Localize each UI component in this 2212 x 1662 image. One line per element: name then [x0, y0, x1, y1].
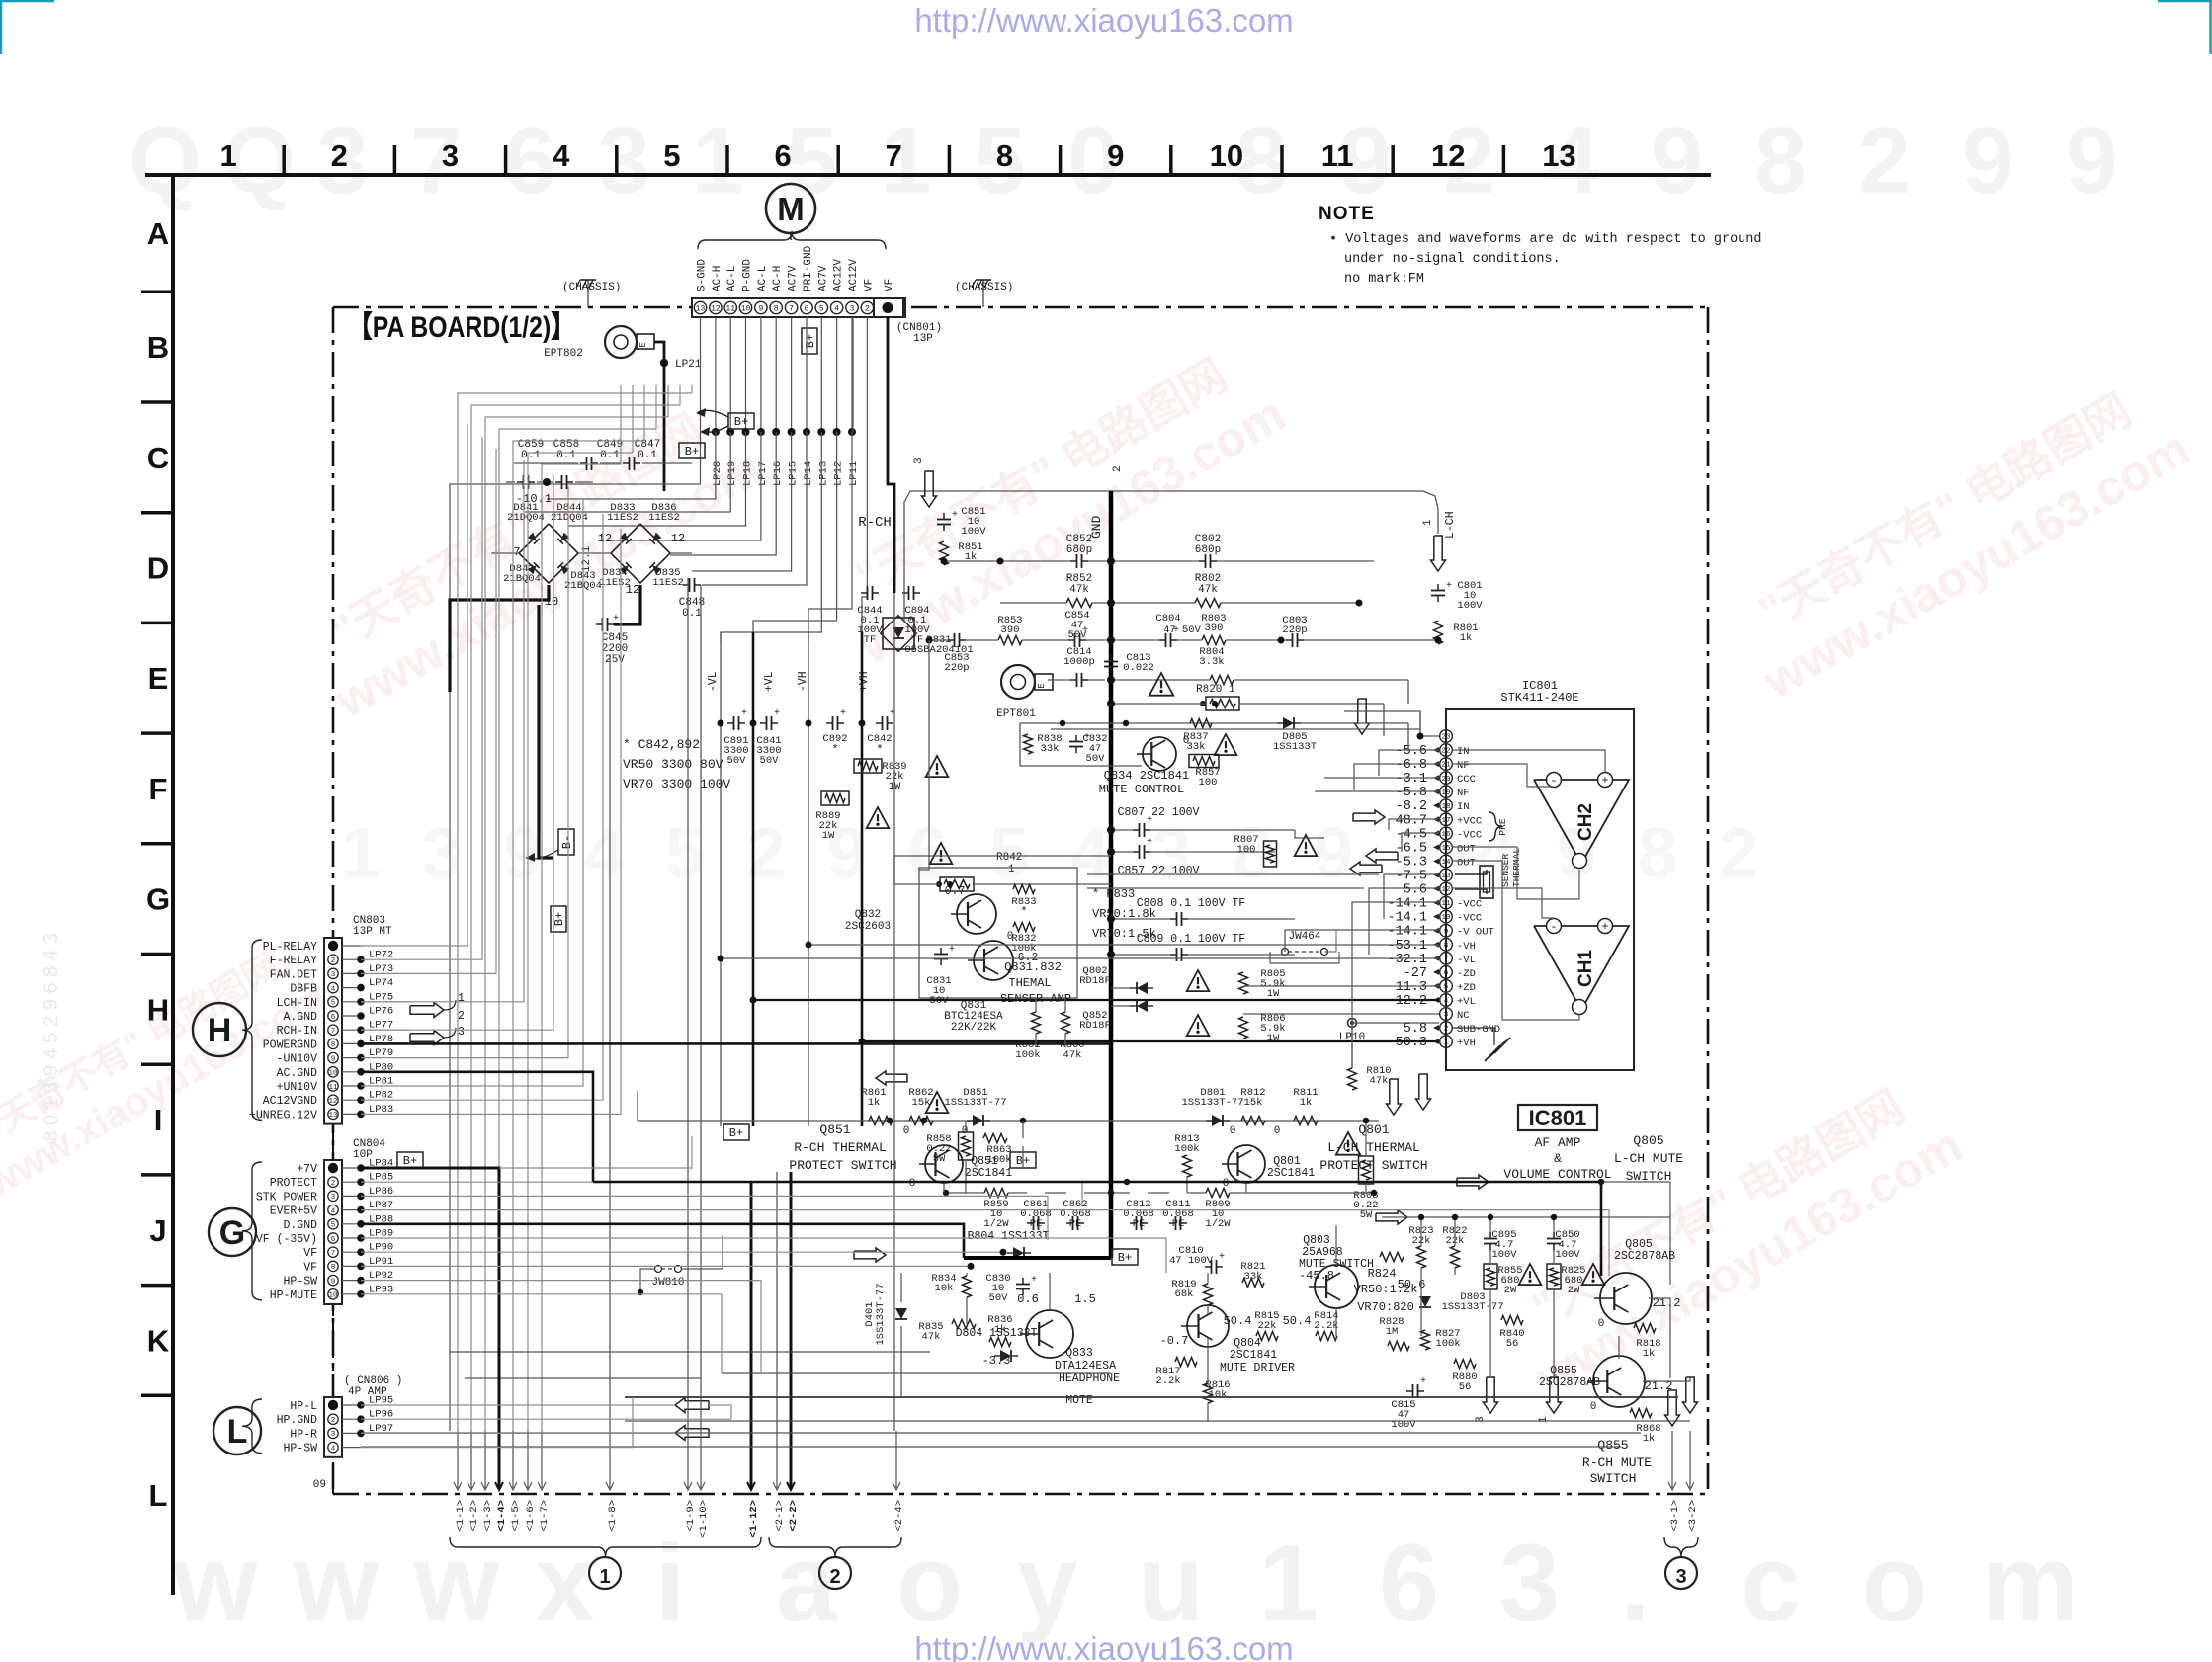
svg-text:-VL: -VL — [1457, 955, 1476, 966]
capacitor C851 10 100V — [943, 513, 945, 520]
pin 2 HP.GND of CN806 — [328, 1414, 338, 1424]
pin 14 of IC801 — [1440, 855, 1453, 868]
svg-text:VR70 3300 100V: VR70 3300 100V — [623, 777, 730, 791]
svg-text:u: u — [1138, 1523, 1204, 1644]
svg-text:R-CH THERMAL: R-CH THERMAL — [794, 1140, 887, 1155]
svg-text:C809 0.1 100V TF: C809 0.1 100V TF — [1137, 933, 1246, 946]
connector CN804 body — [324, 1160, 342, 1304]
svg-text:+VH: +VH — [1457, 1038, 1476, 1049]
svg-text:22K/22K: 22K/22K — [951, 1022, 997, 1034]
pin 3 STK POWER of CN804 — [328, 1191, 338, 1201]
svg-text:1: 1 — [599, 1566, 610, 1588]
svg-text:47 50V: 47 50V — [1163, 624, 1202, 636]
pin 8 POWERGND of CN803 — [328, 1039, 338, 1048]
svg-text:EVER+5V: EVER+5V — [270, 1205, 317, 1218]
svg-text:7: 7 — [1444, 956, 1449, 963]
svg-text:3: 3 — [422, 814, 462, 893]
svg-text:11.3: 11.3 — [1396, 980, 1427, 995]
svg-text:100V: 100V — [1457, 600, 1483, 612]
svg-text:12.2: 12.2 — [1396, 994, 1427, 1009]
wire D.GND bold — [361, 1224, 964, 1258]
transistor Q831 — [974, 941, 1013, 980]
svg-text:<1-1>: <1-1> — [455, 1500, 467, 1532]
resistor R889 22k 1W boxed — [821, 791, 849, 805]
svg-text:m: m — [1982, 1523, 2079, 1644]
svg-text:w: w — [172, 1523, 258, 1644]
svg-text:EPT801: EPT801 — [996, 708, 1036, 720]
pin 4 HP-SW of CN806 — [328, 1442, 338, 1452]
svg-text:Q: Q — [128, 109, 202, 213]
svg-text:DTA124ESA: DTA124ESA — [1055, 1360, 1116, 1372]
circled letter H — [193, 1003, 246, 1056]
svg-text:2SC2878AB: 2SC2878AB — [1614, 1250, 1675, 1263]
bottom pin 2-1 — [776, 1431, 778, 1488]
svg-text:47k: 47k — [1198, 584, 1218, 596]
svg-text:100k: 100k — [1435, 1338, 1460, 1350]
svg-text:5: 5 — [663, 138, 680, 173]
svg-text:-27: -27 — [1404, 966, 1427, 981]
arrow into IC801 pin18 — [1353, 810, 1385, 824]
svg-text:1k: 1k — [1643, 1348, 1656, 1360]
transistor Q804 mute driver — [1187, 1305, 1229, 1347]
svg-text:no mark:FM: no mark:FM — [1344, 272, 1424, 287]
svg-text:+: + — [1601, 920, 1608, 934]
svg-text:B: B — [147, 330, 169, 365]
svg-text:LP16: LP16 — [772, 461, 784, 486]
transistor Q851 — [925, 1145, 963, 1183]
svg-text:B+: B+ — [403, 1154, 417, 1168]
wire right bottom horizontals — [1382, 1216, 1670, 1218]
wire LP10 to pin3 — [1352, 1022, 1439, 1024]
svg-text:3: 3 — [458, 1026, 465, 1039]
svg-text:AC7V: AC7V — [788, 265, 800, 291]
arrow right into R823 node — [1376, 1210, 1407, 1224]
wire CN806 to board edge — [332, 1462, 334, 1494]
svg-text:SWITCH: SWITCH — [1590, 1471, 1637, 1486]
svg-text:12: 12 — [626, 583, 639, 597]
svg-text:G: G — [219, 1214, 245, 1252]
svg-text:H: H — [147, 992, 169, 1027]
svg-text:50.4: 50.4 — [1283, 1314, 1312, 1328]
resistor R839 22k 1W boxed — [854, 759, 882, 773]
label IC801 AF AMP VOLUME CONTROL — [1518, 1105, 1597, 1130]
svg-text:<2-2>: <2-2> — [788, 1500, 800, 1532]
transistor Q805 L-CH mute switch — [1600, 1273, 1652, 1324]
svg-text:8: 8 — [1638, 814, 1677, 893]
svg-text:+: + — [1147, 837, 1152, 848]
svg-text:6: 6 — [331, 1014, 336, 1022]
svg-text:10: 10 — [545, 595, 558, 609]
svg-text:0.022: 0.022 — [1123, 662, 1154, 674]
warning triangle R842 — [930, 843, 953, 864]
bottom pin 3-2 — [1689, 1431, 1691, 1488]
svg-text:<1-5>: <1-5> — [510, 1500, 522, 1532]
svg-text:0.1: 0.1 — [556, 450, 576, 461]
svg-text:<3-1>: <3-1> — [1669, 1500, 1681, 1532]
svg-text:JW464: JW464 — [1288, 931, 1320, 943]
wire right bottom verticals — [1420, 1217, 1422, 1246]
svg-text:11: 11 — [1441, 900, 1451, 908]
svg-text:HP-R: HP-R — [290, 1428, 317, 1441]
capacitor C801 10 100V — [1437, 584, 1439, 591]
svg-text:w: w — [293, 1523, 379, 1644]
warning triangle Q802 — [1187, 970, 1210, 991]
pin 2 F-RELAY of CN803 — [328, 955, 338, 964]
svg-text:<1-4>: <1-4> — [496, 1500, 508, 1532]
svg-text:Q833: Q833 — [1065, 1347, 1093, 1360]
svg-text:0: 0 — [903, 1125, 910, 1137]
svg-text:6: 6 — [1444, 970, 1449, 978]
svg-text:http://www.xiaoyu163.com: http://www.xiaoyu163.com — [914, 1630, 1293, 1662]
svg-text:18: 18 — [1441, 803, 1450, 811]
pin 22 of IC801 — [1440, 744, 1453, 757]
svg-text:2: 2 — [331, 1417, 336, 1425]
pin 20 of IC801 — [1440, 772, 1453, 785]
resistor R808 0.22 5W boxed vertical — [1359, 1156, 1374, 1184]
pin 11 of IC801 — [1440, 896, 1453, 909]
svg-text:1: 1 — [1008, 864, 1015, 875]
board outline dashed top edge — [333, 306, 1708, 309]
svg-text:10: 10 — [328, 1292, 338, 1300]
brace for connector CN803 — [242, 940, 262, 1120]
svg-text:MOTE: MOTE — [1065, 1394, 1093, 1407]
warning triangle Q852 — [1187, 1015, 1210, 1036]
svg-text:MUTE CONTROL: MUTE CONTROL — [1099, 783, 1184, 796]
arrow out of IC801 pin15 — [1366, 849, 1398, 863]
svg-text:7: 7 — [886, 138, 902, 173]
svg-text:10: 10 — [1441, 914, 1451, 922]
svg-text:o: o — [1861, 1523, 1927, 1644]
wire bold vertical to 1-12 stub — [750, 1182, 753, 1431]
pin 7 RCH-IN of CN803 — [328, 1025, 338, 1035]
svg-text:STK POWER: STK POWER — [256, 1191, 317, 1204]
svg-text:-53.1: -53.1 — [1387, 939, 1427, 954]
pin 18 of IC801 — [1440, 799, 1453, 812]
capacitor C894 0.1 100V TF — [902, 592, 909, 594]
svg-text:-4.5: -4.5 — [1396, 827, 1427, 842]
svg-text:2W: 2W — [1568, 1285, 1580, 1296]
wires IC801 upper pins to left — [1344, 711, 1439, 736]
svg-text:H: H — [208, 1012, 232, 1049]
svg-text:-ZD: -ZD — [1457, 968, 1476, 980]
svg-text:4: 4 — [1070, 814, 1110, 893]
wire thick left bus to B- node — [539, 605, 553, 858]
svg-text:12: 12 — [711, 305, 721, 314]
svg-text:RD18F: RD18F — [1079, 975, 1111, 987]
svg-text:LP76: LP76 — [369, 1006, 393, 1018]
svg-text:2SC1841: 2SC1841 — [1267, 1167, 1315, 1180]
svg-text:E: E — [638, 342, 648, 347]
svg-text:6: 6 — [1379, 1523, 1439, 1644]
pin 1 PL-RELAY of CN803 — [328, 941, 338, 951]
svg-text:+: + — [1031, 1275, 1037, 1286]
wire CN803 to CN804 edge line — [332, 954, 334, 1294]
warning triangle near R858 — [926, 1092, 949, 1113]
svg-text:1k: 1k — [1643, 1433, 1656, 1445]
svg-text:50.4: 50.4 — [1224, 1314, 1252, 1328]
svg-text:1.5: 1.5 — [1074, 1292, 1096, 1306]
resistor R805 5.9k 1W — [1239, 972, 1248, 994]
wire right edge bus down — [1669, 1182, 1671, 1285]
pin 5 of IC801 — [1440, 980, 1453, 993]
svg-text:-UN10V: -UN10V — [277, 1053, 318, 1066]
wire capacitor rows — [506, 481, 515, 483]
svg-text:AC12V: AC12V — [848, 259, 860, 291]
arrow right into Q805 mute area — [1457, 1175, 1489, 1189]
svg-text:14: 14 — [1441, 859, 1451, 867]
svg-text:+VCC: +VCC — [1457, 815, 1482, 827]
svg-text:4: 4 — [331, 1207, 336, 1215]
svg-text:*: * — [876, 743, 883, 757]
svg-text:RD18F: RD18F — [1079, 1020, 1111, 1032]
svg-text:7: 7 — [331, 1250, 336, 1258]
svg-text:1: 1 — [692, 109, 744, 213]
terminal EPT802 — [605, 326, 637, 358]
svg-text:A: A — [147, 216, 169, 251]
svg-text:IC801: IC801 — [1529, 1106, 1587, 1130]
svg-text:-: - — [1550, 774, 1557, 788]
wire thick bridge output down — [614, 585, 640, 624]
svg-text:AC-H: AC-H — [712, 266, 723, 291]
bottom pin 1-6 — [527, 1431, 529, 1488]
svg-text:-6.5: -6.5 — [1396, 841, 1427, 856]
diode D831 05SBA204101 — [883, 618, 914, 649]
arrow down output 1 — [1547, 1377, 1562, 1413]
wire EPT802 to LP21 — [654, 342, 664, 491]
svg-text:B+: B+ — [804, 334, 817, 348]
wire bridge interconnects — [491, 552, 519, 554]
bottom pin 1-9 — [687, 1431, 689, 1488]
resistor R827 100k — [1421, 1330, 1430, 1350]
svg-text:-14.1: -14.1 — [1387, 911, 1427, 926]
svg-text:LP13: LP13 — [817, 461, 829, 486]
svg-text:9: 9 — [1651, 109, 1703, 213]
pin 21 of IC801 — [1440, 758, 1453, 771]
svg-text:-14.1: -14.1 — [1387, 897, 1427, 912]
svg-text:1/2W: 1/2W — [1205, 1218, 1231, 1230]
svg-text:13: 13 — [328, 1112, 338, 1120]
svg-text:-VL: -VL — [707, 671, 720, 692]
svg-text:R-CH: R-CH — [858, 515, 892, 531]
svg-text:+ZD: +ZD — [1457, 982, 1476, 994]
svg-text:PROTECT SWITCH: PROTECT SWITCH — [789, 1158, 896, 1173]
svg-text:3: 3 — [442, 138, 459, 173]
svg-text:5: 5 — [331, 1000, 336, 1008]
svg-text:8: 8 — [331, 1264, 336, 1272]
svg-text:-VCC: -VCC — [1457, 899, 1482, 911]
arrow R-CH input 3 — [922, 471, 937, 507]
svg-text:0: 0 — [1274, 1125, 1281, 1137]
svg-text:17: 17 — [1441, 817, 1450, 825]
svg-text:+: + — [1446, 581, 1452, 592]
svg-text:LP14: LP14 — [803, 461, 814, 486]
svg-text:STK411-240E: STK411-240E — [1500, 691, 1578, 705]
svg-text:VF: VF — [884, 279, 895, 291]
resistor R824 symbol — [1380, 1253, 1404, 1262]
thermal sensor symbol inside IC801 — [1455, 870, 1487, 874]
svg-text:47k: 47k — [1069, 584, 1089, 596]
svg-text:13: 13 — [696, 305, 706, 314]
svg-text:2: 2 — [1112, 465, 1124, 472]
warning triangle near R855 — [1519, 1264, 1542, 1285]
terminal EPT801 — [1001, 665, 1035, 699]
svg-text:21BQ04: 21BQ04 — [503, 573, 541, 585]
svg-text:11: 11 — [328, 1084, 338, 1092]
wire bottom long horizontal 1 — [625, 1396, 1678, 1398]
svg-text:16: 16 — [1441, 831, 1451, 839]
wire mute bus y1196 — [1601, 1181, 1670, 1183]
svg-text:PRI-GND: PRI-GND — [803, 245, 814, 291]
svg-text:15k: 15k — [912, 1097, 931, 1109]
diode Q803 1SS133T-77 right — [1419, 1296, 1431, 1307]
svg-text:OUT: OUT — [1457, 858, 1476, 870]
pin 7 VF of CN804 — [328, 1247, 338, 1257]
svg-text:2.2k: 2.2k — [1314, 1320, 1338, 1332]
wire inside IC801 pin22 to CH2 plus — [1452, 750, 1605, 772]
op-amp IC801 STK411-240E outline — [1446, 709, 1634, 1070]
svg-text:1k: 1k — [1300, 1097, 1313, 1109]
wire AC.GND bold — [361, 1072, 593, 1182]
svg-text:-7.5: -7.5 — [1396, 870, 1427, 884]
capacitor C844 0.1 100V TF — [861, 592, 868, 594]
svg-text:1000p: 1000p — [1063, 656, 1095, 668]
svg-text:B+: B+ — [1118, 1251, 1132, 1265]
svg-text:-3.3: -3.3 — [982, 1354, 1011, 1368]
svg-text:15: 15 — [1441, 845, 1451, 853]
resistor R818 1k — [1634, 1324, 1656, 1333]
resistor R825 680 2W boxed — [1547, 1264, 1561, 1289]
svg-text:50.3: 50.3 — [1396, 1036, 1427, 1050]
svg-text:EPT802: EPT802 — [544, 348, 583, 360]
svg-text:+: + — [774, 708, 780, 719]
svg-text:100V: 100V — [961, 526, 986, 538]
pin 5 D.GND of CN804 — [328, 1219, 338, 1229]
svg-text:E: E — [148, 661, 169, 696]
svg-text:5: 5 — [331, 1222, 336, 1230]
wire left bundle nested paths — [458, 393, 692, 1431]
svg-text:R-CH MUTE: R-CH MUTE — [1582, 1455, 1652, 1470]
capacitor C841 3300 50V — [760, 722, 767, 724]
arrow into LCH-IN — [410, 1003, 444, 1018]
wire long vertical to 2-4 stub — [893, 593, 895, 1431]
svg-text:+: + — [613, 614, 619, 624]
wire bottom horizontal extra a — [450, 1351, 930, 1353]
svg-text:<1-8>: <1-8> — [607, 1500, 619, 1532]
svg-text:5: 5 — [665, 814, 705, 893]
svg-text:MUTE DRIVER: MUTE DRIVER — [1220, 1362, 1295, 1374]
brace for connector CN806 — [242, 1399, 262, 1454]
svg-text:2SC2878AB: 2SC2878AB — [1539, 1376, 1600, 1389]
arrow right lower — [854, 1248, 886, 1262]
wire bold vertical to 2-2 stub — [790, 1172, 793, 1431]
arrow down output 3 — [1484, 1377, 1498, 1413]
capacitor C813 0.022 — [1110, 655, 1112, 662]
svg-text:20: 20 — [1441, 776, 1451, 784]
svg-text:3: 3 — [1675, 1566, 1686, 1588]
svg-text:<1-9>: <1-9> — [685, 1500, 697, 1532]
svg-text:C857 22 100V: C857 22 100V — [1118, 865, 1200, 877]
svg-text:47 100V: 47 100V — [1169, 1255, 1214, 1267]
svg-text:1k: 1k — [1460, 632, 1473, 644]
pin 9 of IC801 — [1440, 924, 1453, 937]
svg-text:+: + — [1601, 774, 1608, 788]
circled letter L — [213, 1407, 261, 1454]
svg-text:-8.2: -8.2 — [1396, 799, 1427, 814]
svg-text:TF: TF — [864, 634, 877, 646]
svg-text:POWERGND: POWERGND — [263, 1039, 317, 1051]
svg-text:LP20: LP20 — [712, 461, 723, 486]
svg-text:50V: 50V — [989, 1292, 1009, 1304]
svg-text:+VL: +VL — [1457, 996, 1476, 1008]
svg-text:2.2k: 2.2k — [1155, 1375, 1180, 1387]
wire B plus bus vertical x863 — [852, 317, 854, 432]
svg-text:C808 0.1 100V TF: C808 0.1 100V TF — [1137, 897, 1246, 910]
svg-text:FAN.DET: FAN.DET — [270, 968, 317, 981]
svg-text:+UN10V: +UN10V — [277, 1081, 318, 1094]
capacitor C842 — [876, 722, 883, 724]
svg-text:L: L — [227, 1413, 248, 1451]
wire row y648 — [929, 639, 948, 641]
svg-text:1: 1 — [1444, 1039, 1449, 1047]
svg-text:Q831.832: Q831.832 — [1004, 960, 1062, 974]
wires voltage rails to IC801 pins — [808, 944, 1439, 946]
pin 13 of IC801 — [1440, 869, 1453, 881]
svg-text:PE: PE — [1030, 1218, 1043, 1230]
board outline dashed right edge — [1707, 307, 1710, 1494]
ruler horizontal line — [145, 173, 1711, 177]
wire rail -VH vertical — [808, 632, 809, 1126]
boxed label B+ near capacitor row — [679, 443, 705, 458]
svg-text:<3-2>: <3-2> — [1687, 1500, 1699, 1532]
jumper JW810 — [655, 1266, 662, 1273]
svg-text:w: w — [413, 1523, 499, 1644]
svg-text:22k: 22k — [1258, 1320, 1277, 1332]
arrow down right edge outer — [1683, 1377, 1698, 1413]
svg-text:<1-10>: <1-10> — [698, 1500, 710, 1537]
wire VF pin1 right and down — [888, 317, 894, 593]
capacitor C848 0.1 — [683, 584, 690, 586]
wire top bundle horizontals from pins — [691, 385, 693, 393]
svg-text:9: 9 — [1962, 109, 2014, 213]
svg-text:1: 1 — [1258, 1523, 1319, 1644]
svg-text:1: 1 — [1422, 519, 1434, 526]
svg-text:c: c — [1741, 1523, 1801, 1644]
svg-text:3: 3 — [1444, 1012, 1449, 1020]
transistor Q803 mute switch — [1315, 1265, 1358, 1308]
svg-text:【PA BOARD(1/2)】: 【PA BOARD(1/2)】 — [348, 311, 575, 344]
svg-text:15k: 15k — [1244, 1097, 1263, 1109]
svg-text:-VCC: -VCC — [1457, 829, 1482, 841]
arrow down right edge inner — [1665, 1390, 1680, 1426]
wire S-GND down from pin13 — [450, 432, 701, 1431]
svg-text:1k: 1k — [994, 1324, 1007, 1336]
svg-text:C807 22 100V: C807 22 100V — [1118, 806, 1200, 819]
warning triangle near R825 — [1582, 1264, 1605, 1285]
svg-text:0.1: 0.1 — [521, 450, 541, 461]
svg-text:Q851: Q851 — [819, 1122, 850, 1137]
svg-text:4: 4 — [834, 305, 839, 314]
svg-text:y: y — [1017, 1523, 1077, 1644]
transistor Q834 mute control — [1143, 737, 1176, 771]
capacitor C857 22 100V — [1133, 851, 1140, 853]
svg-text:1W: 1W — [1267, 988, 1280, 1000]
svg-text:2: 2 — [829, 1566, 840, 1588]
svg-text:B+: B+ — [685, 445, 699, 458]
wire rounded corner to L-CH arrow — [1423, 491, 1438, 534]
svg-text:50V: 50V — [727, 755, 747, 767]
svg-text:56: 56 — [1506, 1338, 1519, 1350]
pin 6 A.GND of CN803 — [328, 1011, 338, 1021]
